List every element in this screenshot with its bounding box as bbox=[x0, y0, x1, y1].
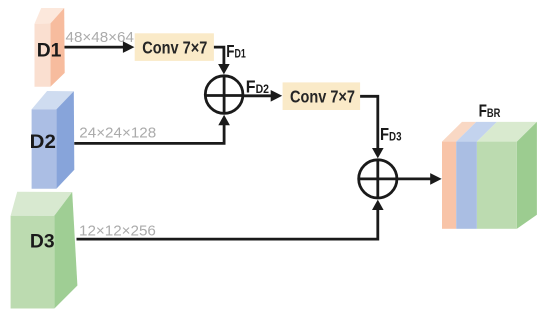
svg-text:D1: D1 bbox=[37, 40, 62, 62]
wire Conv2 to adder A2 (elbow, arrow down) bbox=[360, 96, 384, 158]
wire D1 to Conv1 with arrowhead bbox=[65, 41, 135, 53]
conv block Conv2 (Conv 7x7) bbox=[283, 82, 361, 110]
wire adder A2 to output block with arrowhead bbox=[397, 173, 442, 185]
conv block Conv1 (Conv 7x7) bbox=[135, 33, 214, 61]
svg-text:24×24×128: 24×24×128 bbox=[79, 125, 156, 142]
wire Conv1 to adder A1 (elbow, arrow down) bbox=[214, 47, 230, 74]
svg-text:Conv 7×7: Conv 7×7 bbox=[142, 38, 207, 58]
adder A2 (circle-plus) bbox=[359, 160, 397, 198]
wire adder A1 to Conv2 with arrowhead bbox=[243, 90, 282, 102]
svg-text:Conv 7×7: Conv 7×7 bbox=[290, 86, 355, 106]
svg-text:12×12×256: 12×12×256 bbox=[79, 223, 156, 240]
input block D1 (48x48x64 feature map) bbox=[35, 8, 65, 87]
svg-text:D3: D3 bbox=[30, 231, 55, 253]
wire D2 to adder A1 (elbow, arrow up) bbox=[74, 115, 230, 144]
input block D2 (24x24x128 feature map) bbox=[32, 91, 75, 189]
adder A1 (circle-plus) bbox=[205, 76, 243, 114]
svg-text:D2: D2 bbox=[30, 131, 56, 153]
output block FBR (stacked feature maps) bbox=[442, 122, 537, 229]
wire D3 to adder A2 (elbow, arrow up) bbox=[77, 200, 384, 240]
input block D3 (12x12x256 feature map) bbox=[11, 192, 78, 309]
